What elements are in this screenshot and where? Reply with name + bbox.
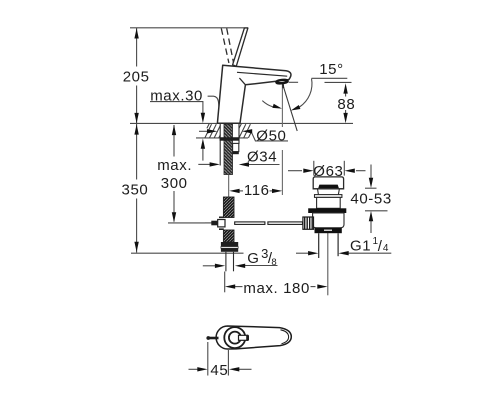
arrow max180 right (right-pointing) (317, 284, 327, 288)
arrow 350 top (up) (134, 124, 138, 134)
svg-text:45: 45 (210, 362, 228, 379)
arrow 88 bottom (down) (343, 113, 347, 123)
arrow dia50 leader (left-pointing) (242, 129, 252, 133)
svg-text:40-53: 40-53 (350, 190, 391, 207)
arrow angle arc right end (291, 105, 301, 111)
40-53 upper reference line (365, 187, 377, 189)
arrow max30 lower (up onto deck underside) (201, 139, 205, 149)
arrow dia34 leader (left-pointing) (239, 162, 249, 166)
40-53 dimension shafts (370, 165, 372, 180)
arrow G3/8 left (right-pointing) (215, 264, 225, 268)
svg-text:116: 116 (244, 182, 270, 199)
arrow 116 left (left-pointing) (229, 189, 239, 193)
arrow G1 1/4 leader (left-pointing) (338, 251, 348, 255)
max180 dimension shafts (234, 286, 243, 288)
Ø50 left arrow shaft (199, 130, 208, 132)
svg-text:Ø34: Ø34 (247, 149, 277, 166)
stem stub to right (239, 335, 248, 340)
hose bottom nut (221, 242, 238, 247)
deck bottom line (196, 137, 248, 139)
spout outlet level reference line for 88 (325, 81, 352, 83)
svg-text:300: 300 (161, 175, 188, 192)
G1 1/4 leader underline (347, 252, 391, 254)
G3/8 left arrow shaft (203, 265, 216, 267)
svg-text:350: 350 (122, 181, 149, 198)
arrow 205 bottom (down) (134, 113, 138, 123)
plug seal ring (dark) (318, 185, 339, 189)
arrow dia34 left (right-pointing) (210, 162, 220, 166)
black o-ring band (308, 208, 346, 213)
max180 left extension line (224, 272, 226, 293)
arrow max300 bottom (down) (172, 212, 176, 222)
arrow 40-53 top (down) (369, 178, 373, 188)
arrow 45 right (left-pointing) (229, 367, 239, 371)
locknut (220, 137, 240, 140)
arrow 88 top (up) (343, 83, 347, 93)
45 arrow shafts (189, 368, 199, 370)
hose nipple right (233, 143, 239, 151)
max30 lower arrow shaft (202, 148, 204, 161)
svg-text:Ø63: Ø63 (313, 163, 343, 180)
116 dimension shafts (238, 190, 243, 192)
thin rod line from max300 ref to fitting (205, 222, 212, 224)
upper body (317, 197, 341, 208)
svg-text:205: 205 (123, 69, 150, 86)
arrow angle arc left end (272, 104, 282, 109)
body outline (217, 65, 291, 123)
arrow dia63 right (left-pointing) (345, 169, 355, 173)
arrow max300 top (up) (172, 125, 176, 135)
svg-text:8: 8 (271, 257, 277, 268)
svg-text:15°: 15° (319, 61, 343, 78)
rod left dark wing (211, 221, 217, 226)
svg-text:Ø50: Ø50 (256, 127, 286, 144)
arrow max30 upper (down onto deck) (201, 113, 205, 123)
solid handle (233, 28, 248, 66)
threaded rod (224, 124, 233, 175)
hatch right of shank (239, 124, 246, 138)
pull rod to left (209, 337, 219, 340)
Ø50 leader bracket (251, 131, 288, 141)
arrow dia63 left (right-pointing) (303, 169, 313, 173)
top reference line (lever top level) (130, 27, 248, 29)
205 dimension line (136, 28, 138, 67)
rod fitting square (218, 220, 225, 227)
tailpipe (318, 233, 320, 258)
svg-text:G1: G1 (350, 237, 371, 254)
arrow G1 1/4 left (right-pointing) (308, 251, 318, 255)
aerator at spout tip (276, 79, 287, 83)
shank outer tube lines (219, 124, 221, 166)
svg-text:max.: max. (157, 157, 192, 174)
angle arc right (300, 79, 312, 108)
arrow 205 top (up) (134, 28, 138, 38)
Ø63 arrow shafts (288, 170, 302, 172)
plug cap (313, 177, 343, 189)
lower black band (nut) (315, 228, 342, 234)
hatch left of shank (205, 124, 212, 138)
knurled knob (303, 217, 314, 229)
svg-text:G: G (247, 250, 259, 267)
angle arc left (262, 101, 273, 107)
arrow 350 bottom (down) (134, 242, 138, 252)
Ø34 leader underline (247, 164, 280, 166)
braided hose upper part (223, 197, 234, 218)
max300 dimension line (173, 125, 175, 157)
outlet level line stub beside nose (289, 81, 298, 83)
center line between rod and hose (228, 175, 230, 198)
lower body (313, 213, 344, 228)
15 deg slanted line (283, 84, 298, 131)
max30 underline + leader (150, 101, 203, 103)
350 dimension line (136, 123, 138, 179)
svg-text:max.30: max.30 (150, 87, 203, 104)
deck/counter top reference line (130, 122, 353, 124)
rod to drain (with break) (235, 222, 265, 225)
15deg underline (312, 77, 348, 79)
cartridge circle (229, 332, 241, 344)
arrow 116 right (right-pointing) (272, 189, 282, 193)
45 extension lines (207, 342, 209, 376)
arrow G3/8 leader (left-pointing) (235, 264, 245, 268)
water outlet dash (282, 84, 284, 88)
arrow max180 left (left-pointing) (225, 284, 235, 288)
cap circle (224, 327, 245, 348)
svg-text:4: 4 (383, 243, 389, 254)
arrow 40-53 bottom (up) (369, 211, 373, 221)
40-53 lower reference line (365, 210, 388, 212)
collar (315, 195, 342, 198)
handle outline (216, 326, 291, 349)
dashed handle position (221, 28, 233, 63)
arrow 45 left (right-pointing) (197, 367, 207, 371)
hose tube below nut (225, 252, 227, 271)
spout underside junction line (239, 78, 245, 85)
inner arc at lever tip (281, 330, 289, 344)
neck (318, 189, 340, 194)
svg-text:88: 88 (337, 96, 355, 113)
G3/8 leader underline (244, 265, 278, 267)
vertical line from spout outlet (116 right extension) (281, 84, 283, 127)
88 dimension line (345, 94, 347, 97)
svg-text:max. 180: max. 180 (243, 280, 310, 297)
bottom reference line at hose end level (131, 252, 244, 254)
spout inner line (237, 72, 287, 76)
max300 bottom reference line (168, 222, 212, 224)
Ø63 extension lines (313, 161, 315, 176)
arrow dia50 left (right-pointing) (207, 129, 217, 133)
drain centerline (327, 229, 329, 295)
max30 hook to faucet base (208, 96, 220, 109)
Ø34 left arrow shaft (198, 163, 211, 165)
